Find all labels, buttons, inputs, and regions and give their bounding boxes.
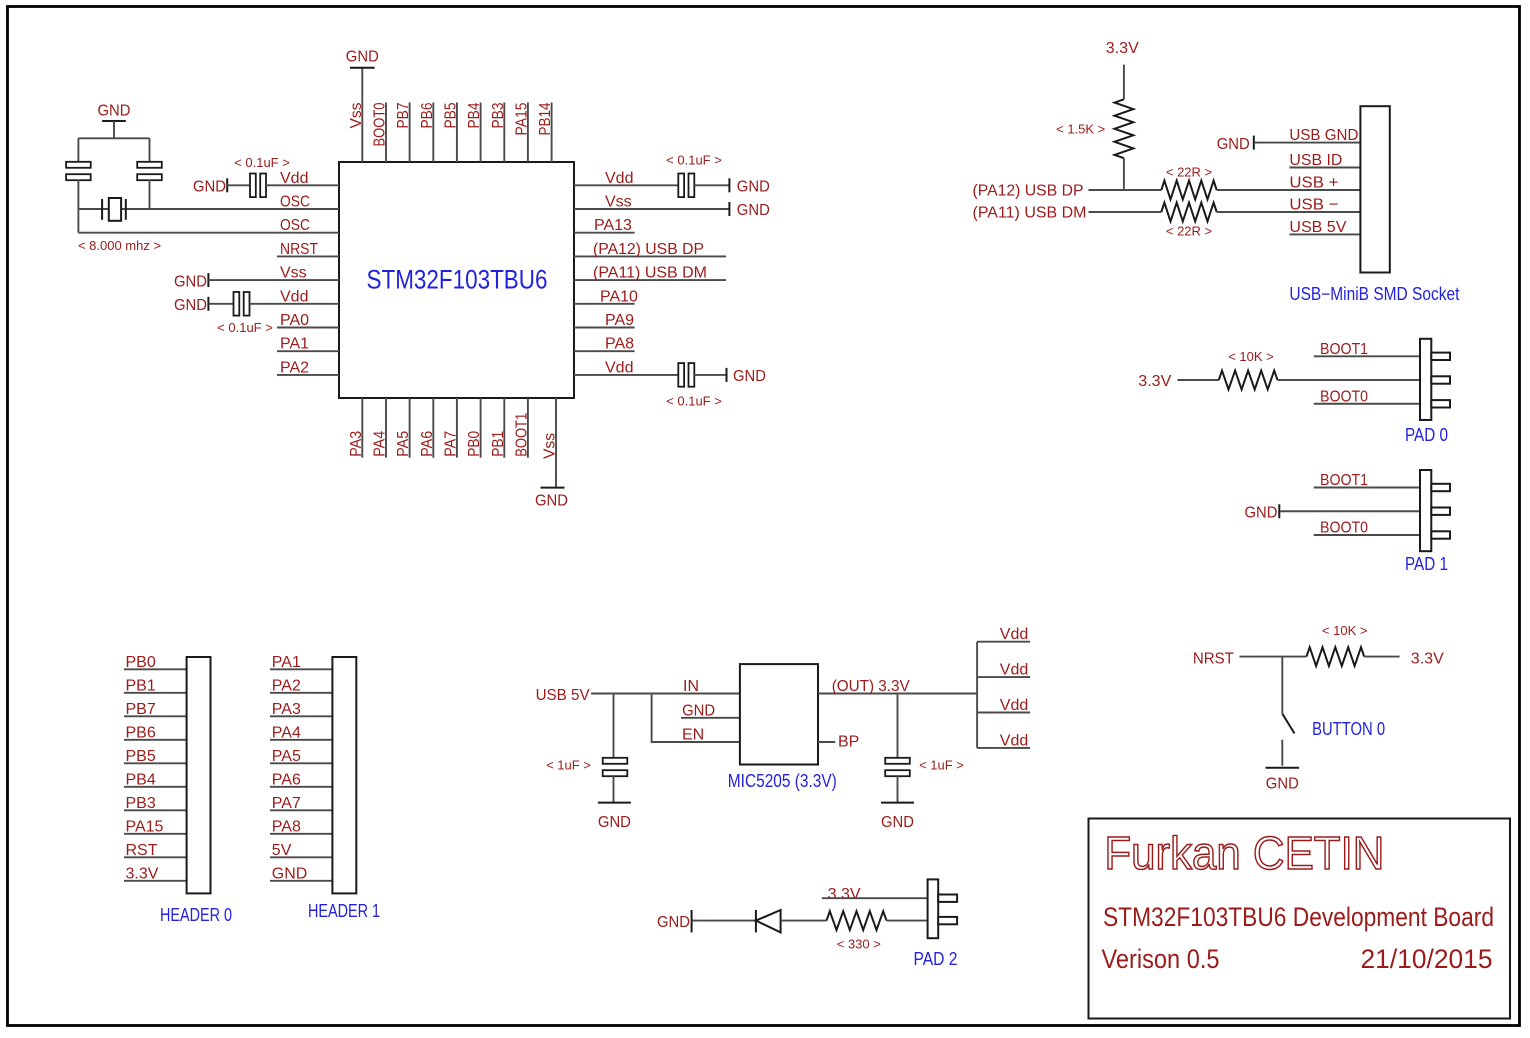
svg-text:PB4: PB4 [126, 771, 156, 788]
capacitor C0 load [66, 162, 91, 168]
svg-text:PAD 1: PAD 1 [1405, 554, 1448, 574]
resistor R2 22R [1161, 203, 1216, 222]
svg-text:Verison 0.5: Verison 0.5 [1102, 944, 1220, 974]
pin PA15 (top) [527, 103, 529, 163]
svg-text:PA15: PA15 [126, 818, 164, 835]
capacitor C5 0.1uF [678, 363, 684, 387]
connector PAD 2 [928, 879, 939, 938]
svg-text:USB ID: USB ID [1289, 152, 1342, 169]
svg-text:HEADER 0: HEADER 0 [160, 905, 232, 925]
wire C4 to GND [694, 184, 729, 186]
wire 3.3V to HEADER0 [124, 880, 187, 882]
wire cap tops [78, 137, 149, 139]
wire PA8 stub [574, 350, 635, 352]
svg-text:NRST: NRST [280, 241, 318, 258]
svg-text:MIC5205 (3.3V): MIC5205 (3.3V) [728, 771, 837, 791]
svg-text:PA6: PA6 [419, 431, 436, 457]
svg-text:GND: GND [193, 179, 226, 196]
pin PB0 (bottom) [480, 398, 482, 458]
wire PB0 to HEADER0 [124, 668, 187, 670]
wire C2 to Vdd pin [266, 184, 339, 186]
wire PB3 to HEADER0 [124, 809, 187, 811]
svg-text:GND: GND [174, 297, 207, 314]
svg-text:STM32F103TBU6 Development Boar: STM32F103TBU6 Development Board [1103, 902, 1494, 932]
wire PA10 stub [574, 303, 635, 305]
svg-text:21/10/2015: 21/10/2015 [1361, 944, 1493, 974]
svg-text:PAD 2: PAD 2 [914, 949, 958, 969]
svg-text:< 1uF >: < 1uF > [546, 758, 591, 773]
ground tick [728, 202, 730, 216]
wire GND to C3 [208, 303, 233, 305]
wire R2 to USB- [1217, 211, 1361, 213]
svg-text:PB3: PB3 [126, 795, 156, 812]
wire C7 to GND [897, 776, 899, 803]
svg-text:Vdd: Vdd [605, 170, 633, 187]
svg-text:PB1: PB1 [490, 431, 507, 457]
wire C1 to OSC1 [149, 180, 151, 210]
svg-text:OSC: OSC [280, 194, 310, 211]
svg-text:3.3V: 3.3V [1106, 40, 1139, 57]
svg-text:Vss: Vss [280, 265, 307, 282]
connector HEADER 0 [187, 657, 211, 893]
svg-text:PA3: PA3 [272, 701, 301, 718]
ground tick [728, 178, 730, 192]
resistor R1 22R [1161, 181, 1216, 200]
svg-text:< 1.5K >: < 1.5K > [1056, 122, 1105, 137]
wire Vdd rung 2 [977, 712, 1030, 714]
pin PA7 (bottom) [456, 398, 458, 458]
svg-text:RST: RST [126, 842, 158, 859]
ground [541, 487, 565, 489]
svg-text:Vdd: Vdd [1000, 732, 1028, 749]
svg-text:PB3: PB3 [490, 102, 507, 128]
wire PA15 to HEADER0 [124, 833, 187, 835]
wire 3.3V to R3 [1178, 379, 1219, 381]
pin Vss (top) / wire to GND [361, 68, 363, 162]
connector HEADER 1 [332, 657, 356, 893]
ground [350, 67, 375, 69]
ground [1266, 767, 1300, 769]
pin PB3 (top) [503, 103, 505, 163]
wire R3 to PAD0 pin2 [1278, 379, 1421, 381]
wire to C7 [897, 694, 899, 759]
svg-text:PA3: PA3 [348, 431, 365, 457]
capacitor C6 1uF [603, 758, 628, 764]
connector J0 USB-MiniB socket [1360, 106, 1389, 272]
wire C5 to GND [694, 374, 726, 376]
wire USB ID [1289, 167, 1360, 169]
ground tick [726, 368, 728, 382]
wire GND to D0 [693, 920, 756, 922]
svg-text:Vdd: Vdd [280, 170, 308, 187]
wire Vdd rung 1 [977, 676, 1030, 678]
svg-text:Vdd: Vdd [605, 359, 633, 376]
svg-text:< 0.1uF >: < 0.1uF > [217, 320, 273, 335]
title block box [1089, 819, 1511, 1019]
svg-text:BUTTON 0: BUTTON 0 [1312, 719, 1385, 739]
svg-text:USB GND: USB GND [1289, 127, 1358, 144]
svg-text:< 10K >: < 10K > [1322, 623, 1368, 638]
svg-text:PB6: PB6 [419, 102, 436, 128]
svg-text:Vdd: Vdd [1000, 697, 1028, 714]
wire PA6 to HEADER1 [270, 786, 332, 788]
connector PAD 1 [1420, 470, 1431, 551]
wire PA0 stub [277, 327, 339, 329]
svg-text:USB 5V: USB 5V [1289, 219, 1346, 236]
svg-text:Vdd: Vdd [1000, 662, 1028, 679]
ground [881, 802, 914, 804]
svg-text:PA0: PA0 [280, 312, 309, 329]
svg-text:HEADER 1: HEADER 1 [308, 901, 380, 921]
svg-text:PB0: PB0 [466, 431, 483, 457]
wire PA4 to HEADER1 [270, 739, 332, 741]
wire Vdd rung 0 [977, 641, 1030, 643]
svg-text:GND: GND [733, 368, 766, 385]
ground tick (LED) [691, 910, 693, 932]
wire PA3 to HEADER1 [270, 715, 332, 717]
svg-text:Vss: Vss [348, 103, 365, 129]
wire to C6 [613, 694, 615, 759]
ground tick [207, 297, 209, 311]
wire R4 to PAD2 pin2 [887, 920, 928, 922]
wire PB6 to HEADER0 [124, 739, 187, 741]
svg-text:PA2: PA2 [280, 359, 309, 376]
wire USB DP [574, 255, 726, 257]
wire switch to GND [1281, 740, 1283, 766]
wire PA2 stub [277, 374, 339, 376]
svg-text:PB1: PB1 [126, 677, 156, 694]
wire PA2 to HEADER1 [270, 692, 332, 694]
pin PA3 (bottom) [361, 398, 363, 458]
wire PB4 to HEADER0 [124, 786, 187, 788]
svg-text:PA7: PA7 [442, 431, 459, 457]
ground tick [1253, 136, 1255, 150]
svg-text:Vdd: Vdd [280, 288, 308, 305]
pin Vss (bottom) / wire to GND [555, 398, 557, 488]
wire R1 to USB+ [1217, 189, 1361, 191]
wire GND to C2 [227, 184, 250, 186]
svg-text:GND: GND [346, 49, 379, 66]
svg-text:3.3V: 3.3V [126, 865, 159, 882]
svg-text:PA1: PA1 [280, 336, 309, 353]
wire GND to PAD1 pin2 [1280, 510, 1420, 512]
pin PB5 (top) [456, 103, 458, 163]
wire R0 to USB DP [1123, 158, 1125, 190]
wire BOOT0 to PAD1 pin3 [1314, 534, 1420, 536]
ground tick [1278, 504, 1280, 518]
svg-text:GND: GND [174, 273, 207, 290]
wire BP stub [818, 741, 835, 743]
ground [102, 120, 126, 122]
switch SW0 BUTTON 0 [1282, 714, 1294, 734]
svg-text:USB−MiniB SMD Socket: USB−MiniB SMD Socket [1289, 284, 1459, 304]
wire OUT to Vdd ladder [818, 693, 977, 695]
svg-text:PA9: PA9 [605, 312, 634, 329]
pin PA6 (bottom) [432, 398, 434, 458]
wire BOOT0 to PAD0 pin3 [1314, 403, 1420, 405]
capacitor C3 0.1uF [234, 292, 240, 316]
svg-text:PA1: PA1 [272, 654, 301, 671]
svg-text:GND: GND [682, 702, 715, 719]
capacitor C1 load [137, 162, 162, 168]
wire USB5V to IN pin [591, 693, 740, 695]
svg-text:PA6: PA6 [272, 771, 301, 788]
wire PA7 to HEADER1 [270, 809, 332, 811]
wire PB7 to HEADER0 [124, 715, 187, 717]
svg-text:3.3V: 3.3V [828, 886, 861, 903]
svg-text:5V: 5V [272, 842, 292, 859]
svg-text:PB6: PB6 [126, 724, 156, 741]
wire PA9 stub [574, 327, 635, 329]
IC U1 STM32F103TBU6 box [339, 162, 574, 398]
svg-text:BOOT0: BOOT0 [1320, 388, 1368, 405]
svg-text:PB0: PB0 [126, 654, 156, 671]
pin PA4 (bottom) [385, 398, 387, 458]
svg-text:GND: GND [1245, 504, 1278, 521]
svg-text:(PA11) USB DM: (PA11) USB DM [973, 205, 1087, 222]
capacitor C7 1uF [885, 758, 910, 764]
resistor R4 330 [827, 911, 887, 930]
svg-text:3.3V: 3.3V [1411, 650, 1444, 667]
svg-text:GND: GND [737, 202, 770, 219]
svg-text:BOOT1: BOOT1 [1320, 472, 1368, 489]
wire OSC2 to crystal [78, 232, 339, 234]
svg-text:PA8: PA8 [605, 336, 634, 353]
svg-text:(PA12) USB DP: (PA12) USB DP [973, 183, 1084, 200]
svg-text:Vss: Vss [605, 194, 632, 211]
svg-text:< 0.1uF >: < 0.1uF > [234, 155, 290, 170]
pin BOOT0 (top) [385, 103, 387, 163]
svg-text:Vss: Vss [542, 433, 559, 459]
svg-text:STM32F103TBU6: STM32F103TBU6 [367, 265, 548, 295]
svg-text:PA4: PA4 [372, 431, 389, 457]
pin PB6 (top) [432, 103, 434, 163]
svg-text:NRST: NRST [1193, 650, 1234, 667]
svg-text:(OUT) 3.3V: (OUT) 3.3V [832, 678, 910, 695]
ground tick [226, 178, 228, 192]
wire Vdd rung 3 [977, 747, 1030, 749]
svg-text:PA7: PA7 [272, 795, 301, 812]
svg-text:(PA12) USB DP: (PA12) USB DP [593, 241, 704, 258]
wire BOOT1 to PAD0 pin1 [1314, 355, 1420, 357]
wire PB5 to HEADER0 [124, 762, 187, 764]
svg-text:PB7: PB7 [126, 701, 156, 718]
wire to C1 [149, 138, 151, 163]
wire PA5 to HEADER1 [270, 762, 332, 764]
wire NRST to R5 [1239, 656, 1306, 658]
wire GND stub [113, 121, 115, 138]
svg-text:3.3V: 3.3V [1138, 373, 1171, 390]
svg-text:PB5: PB5 [442, 102, 459, 128]
svg-text:< 0.1uF >: < 0.1uF > [666, 394, 722, 409]
wire R5 to 3.3V [1364, 656, 1399, 658]
wire PA8 to HEADER1 [270, 833, 332, 835]
wire Vdd ladder vertical [976, 642, 978, 748]
svg-text:PB7: PB7 [395, 102, 412, 128]
wire Vdd pin to C4 [574, 184, 678, 186]
svg-text:< 22R >: < 22R > [1166, 224, 1212, 239]
pin PB14 (top) [551, 103, 553, 163]
wire C0 to OSC2 [77, 180, 79, 233]
wire Vss pin to GND [574, 208, 729, 210]
wire PA1 to HEADER1 [270, 668, 332, 670]
svg-text:BOOT1: BOOT1 [1320, 341, 1368, 358]
svg-text:USB +: USB + [1289, 175, 1338, 192]
svg-text:PA2: PA2 [272, 677, 301, 694]
svg-text:GND: GND [535, 493, 568, 510]
wire USB DM [574, 279, 726, 281]
svg-text:GND: GND [1266, 776, 1299, 793]
svg-text:BOOT0: BOOT0 [1320, 520, 1368, 537]
wire PA13 stub [574, 232, 635, 234]
wire BOOT1 to PAD1 pin1 [1314, 487, 1420, 489]
svg-text:GND: GND [657, 914, 690, 931]
wire NRST to switch [1281, 657, 1283, 714]
wire C6 to GND [613, 776, 615, 803]
svg-text:BOOT1: BOOT1 [513, 413, 530, 457]
wire to C0 [77, 138, 79, 163]
svg-text:BOOT0: BOOT0 [372, 102, 389, 146]
svg-text:PB4: PB4 [466, 102, 483, 128]
wire NRST stub [277, 255, 339, 257]
wire GND to Vss pin [208, 279, 339, 281]
wire 3.3V to PAD2 pin1 [822, 897, 928, 899]
wire USB 5V [1289, 233, 1360, 235]
pin PB1 (bottom) [503, 398, 505, 458]
wire OSC1 to crystal [78, 208, 339, 210]
pin PB7 (top) [409, 103, 411, 163]
svg-text:PA13: PA13 [594, 217, 632, 234]
svg-text:GND: GND [881, 814, 914, 831]
svg-text:< 8.000 mhz >: < 8.000 mhz > [78, 238, 161, 253]
wire PA1 stub [277, 350, 339, 352]
ground tick [207, 273, 209, 287]
svg-text:GND: GND [1217, 136, 1250, 153]
wire USB DM to R2 [1089, 211, 1162, 213]
capacitor C4 0.1uF [678, 174, 684, 198]
wire GND to USB GND [1255, 142, 1361, 144]
svg-text:Vdd: Vdd [1000, 626, 1028, 643]
wire USB DP to R1 [1089, 189, 1162, 191]
svg-text:PA5: PA5 [272, 748, 301, 765]
svg-text:PAD 0: PAD 0 [1405, 425, 1448, 445]
resistor R0 1.5K [1115, 99, 1134, 158]
svg-text:GND: GND [98, 103, 131, 120]
wire D0 to R4 [781, 920, 827, 922]
diode D0 LED [755, 910, 757, 932]
pin BOOT1 (bottom) [527, 398, 529, 458]
pin PA5 (bottom) [409, 398, 411, 458]
svg-text:GND: GND [737, 179, 770, 196]
svg-text:GND: GND [598, 814, 631, 831]
svg-text:(PA11) USB DM: (PA11) USB DM [593, 265, 707, 282]
svg-text:< 10K >: < 10K > [1228, 349, 1274, 364]
svg-text:BP: BP [838, 734, 859, 751]
svg-text:< 1uF >: < 1uF > [919, 758, 964, 773]
wire C3 to Vdd pin [250, 303, 340, 305]
svg-text:Furkan CETIN: Furkan CETIN [1104, 827, 1384, 879]
wire PB1 to HEADER0 [124, 692, 187, 694]
svg-text:PB5: PB5 [126, 748, 156, 765]
crystal Y0 8MHz [101, 199, 103, 220]
svg-text:PA4: PA4 [272, 724, 301, 741]
svg-text:PA10: PA10 [600, 288, 638, 305]
pin PB4 (top) [480, 103, 482, 163]
wire Vdd pin to C5 [574, 374, 678, 376]
resistor R3 10K [1219, 371, 1278, 390]
resistor R5 10K [1307, 647, 1365, 666]
svg-text:< 22R >: < 22R > [1166, 165, 1212, 180]
IC U2 MIC5205 box [740, 664, 818, 764]
svg-text:EN: EN [682, 727, 704, 744]
svg-text:GND: GND [272, 865, 308, 882]
svg-text:USB −: USB − [1289, 197, 1338, 214]
wire 3.3V to R0 [1123, 65, 1125, 100]
svg-text:OSC: OSC [280, 217, 310, 234]
svg-text:PA8: PA8 [272, 818, 301, 835]
wire GND pin stub [681, 717, 740, 719]
wire USB5V to EN pin [652, 694, 740, 743]
connector PAD 0 [1420, 339, 1431, 420]
svg-text:PB14: PB14 [537, 102, 554, 135]
svg-text:< 0.1uF >: < 0.1uF > [666, 153, 722, 168]
capacitor C2 0.1uF [250, 174, 256, 198]
svg-text:PA5: PA5 [395, 431, 412, 457]
svg-text:IN: IN [683, 678, 699, 695]
svg-text:USB 5V: USB 5V [536, 687, 590, 704]
wire 5V to HEADER1 [270, 856, 332, 858]
ground [598, 802, 631, 804]
svg-text:< 330 >: < 330 > [837, 937, 881, 952]
wire GND to HEADER1 [270, 880, 332, 882]
wire RST to HEADER0 [124, 856, 187, 858]
svg-text:PA15: PA15 [513, 102, 530, 135]
